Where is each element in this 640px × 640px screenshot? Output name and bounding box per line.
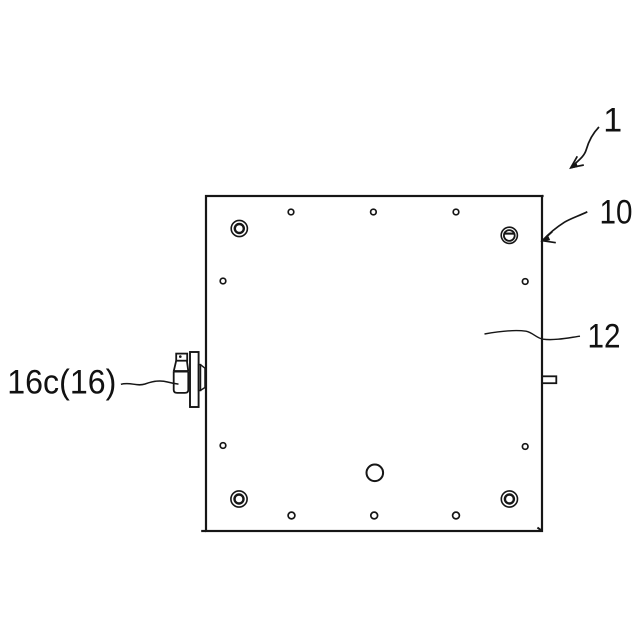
small hole left upper (220, 278, 226, 284)
svg-text:16c(16): 16c(16) (7, 364, 116, 402)
top edge overshoot right (542, 195, 544, 197)
leader line label 1 (572, 127, 600, 167)
leader line label 12 (485, 331, 581, 340)
small hole bottom 3 (453, 512, 460, 519)
screw hole top-right (501, 227, 517, 243)
connector 16c divider (174, 370, 189, 372)
small hole right upper (522, 279, 528, 285)
bottom-right corner tick (537, 528, 541, 531)
bottom edge overshoot left (201, 530, 206, 532)
small hole top 1 (288, 209, 294, 215)
connector 16c cap (176, 354, 187, 361)
small hole right lower (522, 444, 528, 450)
svg-text:1: 1 (603, 102, 622, 140)
connector 16c hub (199, 365, 205, 391)
connector 16c body (174, 371, 189, 393)
plate 10 outline (206, 196, 542, 531)
small hole top 2 (371, 209, 377, 215)
connector 16c flange (190, 352, 199, 407)
connector 16c taper (174, 361, 189, 372)
small hole bottom 1 (288, 512, 295, 519)
svg-text:12: 12 (588, 318, 621, 356)
small hole left lower (220, 443, 226, 449)
screw hole bottom-right (501, 491, 517, 507)
center hole bottom (367, 465, 384, 482)
small hole bottom 2 (371, 512, 378, 519)
screw hole top-left (231, 220, 247, 236)
screw hole bottom-left (231, 491, 247, 507)
tab on right edge (542, 376, 556, 383)
arrowhead label 1 (571, 156, 584, 167)
svg-text:10: 10 (600, 194, 633, 232)
arrowhead label 10 (542, 232, 556, 243)
leader line label 10 (543, 212, 588, 241)
small hole top 3 (453, 209, 459, 215)
leader line label 16c (121, 381, 179, 385)
